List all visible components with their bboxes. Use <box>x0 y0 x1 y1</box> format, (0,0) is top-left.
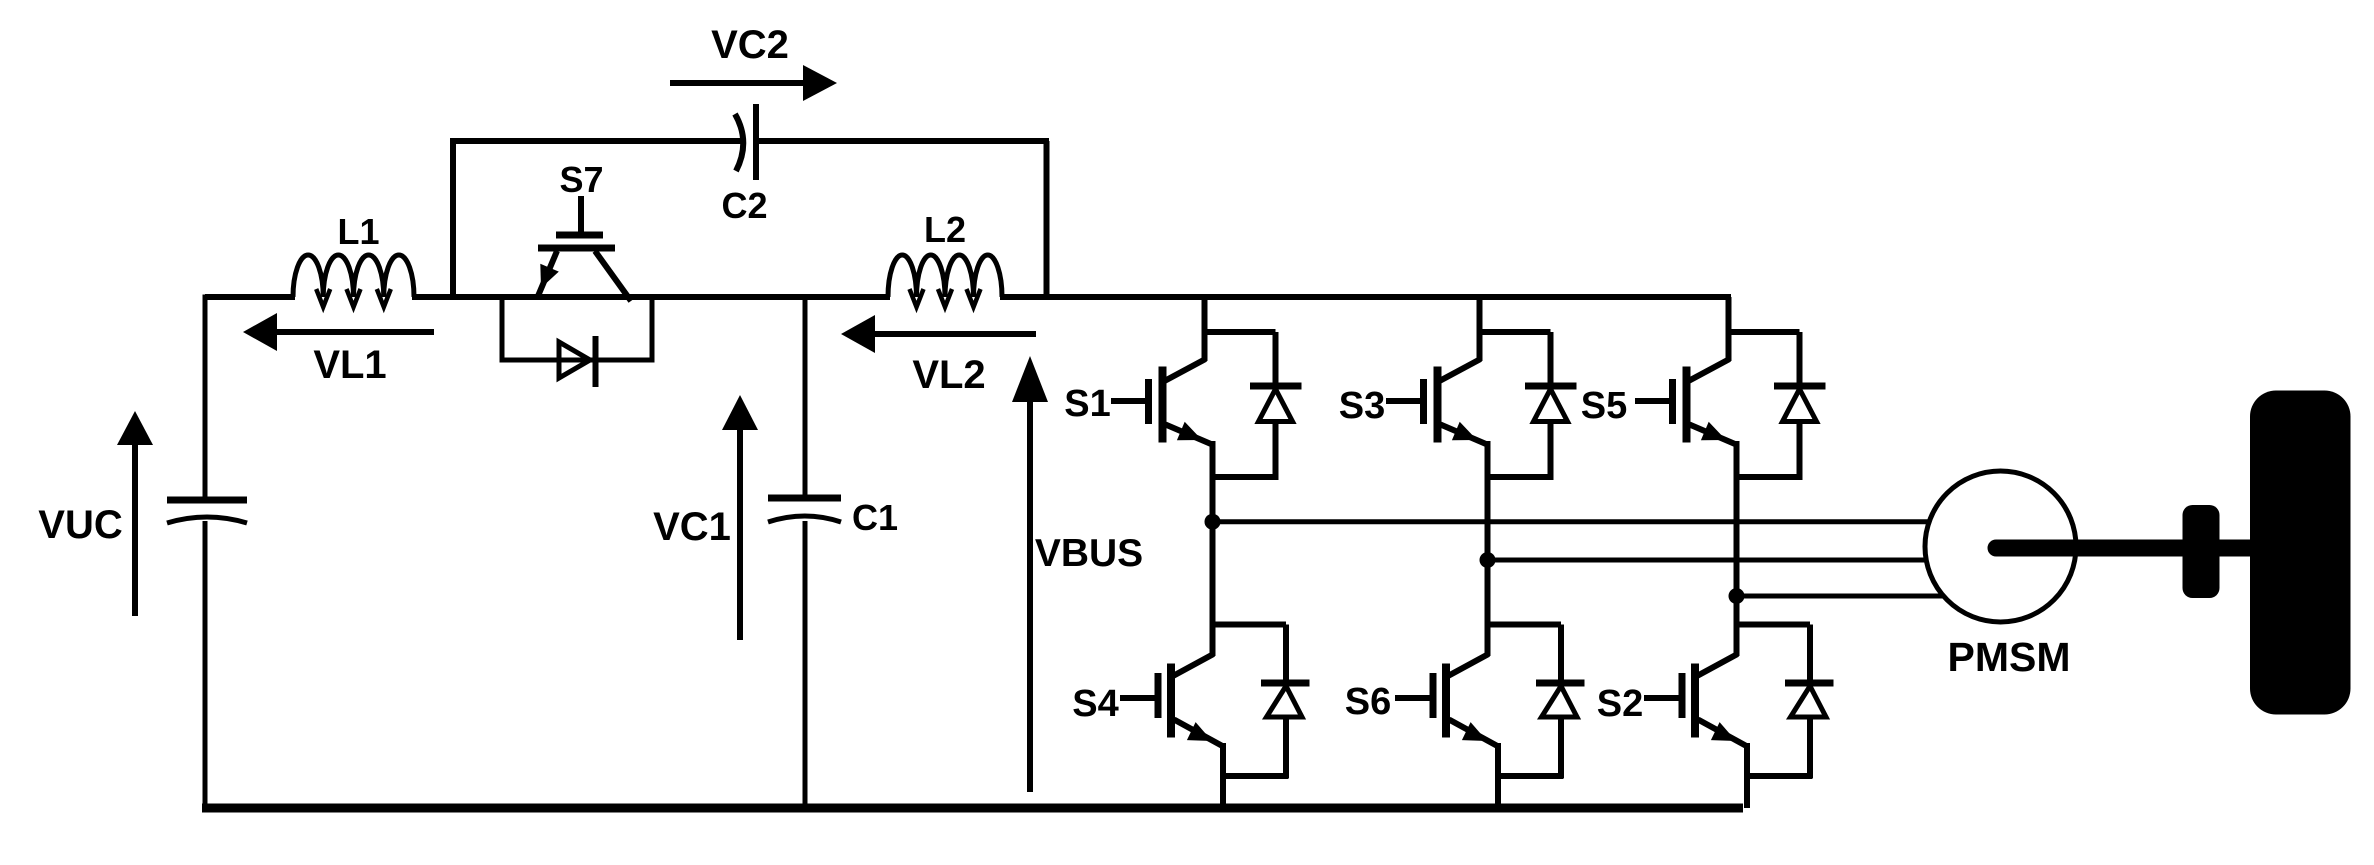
arrow VC1 <box>737 428 743 640</box>
wire: S7 antiparallel diode loop <box>502 294 652 360</box>
svg-text:S5: S5 <box>1581 385 1627 427</box>
wire: S5 diode return to emitter <box>1737 474 1803 480</box>
wire: S1 collector stub to diode <box>1202 329 1276 335</box>
shaft <box>1996 540 2252 557</box>
diode D2 (antiparallel with S2) <box>1785 625 1834 779</box>
svg-text:S4: S4 <box>1072 683 1118 725</box>
svg-text:C2: C2 <box>721 185 767 226</box>
svg-text:VC1: VC1 <box>653 505 731 549</box>
svg-text:S7: S7 <box>559 159 603 200</box>
flywheel load <box>2250 391 2351 715</box>
capacitor C1 <box>768 495 841 502</box>
svg-text:VUC: VUC <box>38 503 122 547</box>
inductor L2 <box>888 255 1002 297</box>
arrow VUC <box>132 443 138 616</box>
diode D1 (antiparallel with S1) <box>1250 332 1302 477</box>
diode D7 (antiparallel with S7) <box>559 342 590 378</box>
svg-text:S1: S1 <box>1064 383 1110 425</box>
wire: phase B line to motor <box>1488 558 1928 563</box>
wire: S2 collector stub to diode <box>1734 622 1810 628</box>
transistor S4 (IGBT, lower switch) <box>1120 522 1223 808</box>
svg-text:VL1: VL1 <box>313 343 386 387</box>
diode D5 (antiparallel with S5) <box>1774 332 1826 477</box>
node phase B junction <box>1480 552 1496 568</box>
diode D3 (antiparallel with S3) <box>1525 332 1577 477</box>
wire: phase C line to motor <box>1737 594 1945 599</box>
svg-text:L1: L1 <box>337 211 379 252</box>
node phase A junction <box>1205 514 1221 530</box>
svg-text:S6: S6 <box>1345 681 1391 723</box>
diode D6 (antiparallel with S6) <box>1536 625 1585 779</box>
svg-text:S2: S2 <box>1597 683 1643 725</box>
wire: top wire from C2 right plate <box>756 138 1049 144</box>
wire: S5 collector stub to diode <box>1726 329 1800 335</box>
wire: S6 collector stub to diode <box>1485 622 1561 628</box>
wire: top main wire left segment <box>205 294 295 300</box>
svg-text:VC2: VC2 <box>711 23 789 67</box>
wire: left vertical branch (ultracapacitor branch) <box>203 295 208 501</box>
diode D4 (antiparallel with S4) <box>1261 625 1310 779</box>
wire: S3 collector stub to diode <box>1477 329 1551 335</box>
svg-text:L2: L2 <box>924 209 966 250</box>
capacitor VUC (ultracapacitor) <box>167 497 247 504</box>
svg-text:VBUS: VBUS <box>1035 532 1143 575</box>
transistor S7 (IGBT) <box>538 196 631 301</box>
wire: S1 diode return to emitter <box>1213 474 1279 480</box>
wire: bottom rail <box>202 804 1743 813</box>
inductor L1 <box>293 255 414 297</box>
wire: top wire to C2 left plate <box>450 138 743 144</box>
wire: C1 branch vertical <box>803 295 808 499</box>
wire: S6 diode return to emitter <box>1498 773 1564 779</box>
wire: phase A line to motor <box>1213 519 1932 524</box>
wire: main wire between L1 and L2 <box>412 294 890 300</box>
svg-text:VL2: VL2 <box>912 353 985 397</box>
wire: S4 diode return to emitter <box>1223 773 1289 779</box>
transistor S5 (IGBT, upper switch) <box>1635 297 1737 596</box>
wire: vertical from C2 wire down to main wire <box>1044 141 1050 297</box>
transistor S1 (IGBT, upper switch) <box>1111 297 1213 522</box>
motor PMSM <box>1925 471 2076 622</box>
wire: S2 diode return to emitter <box>1747 773 1813 779</box>
arrow VC2 <box>670 80 806 86</box>
wire: S3 diode return to emitter <box>1488 474 1554 480</box>
svg-text:PMSM: PMSM <box>1948 634 2071 680</box>
wire: S4 collector stub to diode <box>1210 622 1286 628</box>
wire: main wire from L2 to inverter top rail <box>1000 294 1731 300</box>
capacitor C2 <box>735 114 743 171</box>
arrow VL1 <box>274 329 434 335</box>
svg-text:C1: C1 <box>852 497 898 538</box>
arrow VBUS <box>1027 401 1033 792</box>
arrow VL2 <box>872 331 1036 337</box>
transistor S2 (IGBT, lower switch) <box>1644 596 1747 808</box>
node phase C junction <box>1729 588 1745 604</box>
wire: vertical from top C2 wire down to S7 node <box>450 141 456 297</box>
transistor S6 (IGBT, lower switch) <box>1395 560 1498 808</box>
transistor S3 (IGBT, upper switch) <box>1386 297 1488 560</box>
coupling block <box>2183 505 2220 598</box>
svg-text:S3: S3 <box>1339 385 1385 427</box>
